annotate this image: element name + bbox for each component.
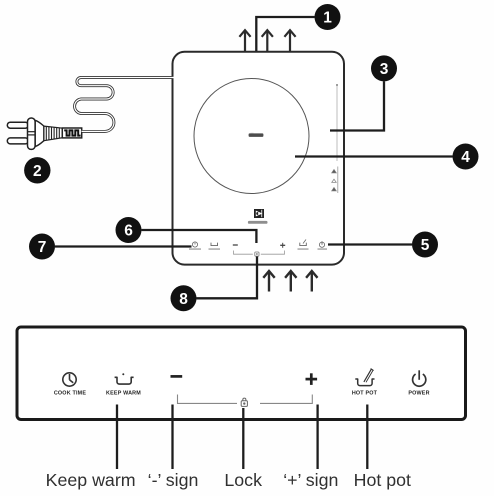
- enlarged control panel: [17, 327, 466, 420]
- mini lock bracket: [234, 251, 285, 255]
- label pointer line: plus: [316, 405, 318, 470]
- leader line 7: [55, 245, 192, 247]
- panel lock icon: [241, 398, 247, 406]
- panel plus key: [306, 378, 318, 381]
- label pointer line: lock: [242, 408, 244, 469]
- mini control panel: plus key: [280, 244, 285, 246]
- callout 5: [412, 232, 438, 258]
- leader line 6: [142, 230, 257, 243]
- leader line 4: [295, 155, 453, 157]
- panel lock bracket: [178, 395, 313, 404]
- mini control panel: keep-warm icon: [211, 243, 218, 246]
- svg-text:KEEP WARM: KEEP WARM: [106, 391, 141, 397]
- svg-text:3: 3: [380, 61, 389, 78]
- callout 4: [453, 144, 479, 170]
- callout 6: [116, 217, 142, 243]
- svg-text:POWER: POWER: [408, 391, 429, 397]
- mini control panel: hot-pot icon: [300, 243, 307, 246]
- panel hot-pot icon: [355, 369, 374, 386]
- label pointer line: hot pot: [366, 405, 368, 470]
- svg-text:HOT POT: HOT POT: [352, 391, 378, 397]
- svg-text:1: 1: [323, 10, 332, 27]
- svg-text:4: 4: [461, 149, 470, 166]
- bottom airflow arrows: [263, 271, 317, 292]
- power level scale line: [336, 84, 338, 161]
- electrolux wordmark: [248, 221, 268, 224]
- power cord meander: [75, 78, 174, 132]
- svg-text:‘+’ sign: ‘+’ sign: [283, 470, 338, 490]
- label pointer line: keep warm: [116, 405, 118, 470]
- svg-text:8: 8: [179, 291, 188, 308]
- leader line 8: [196, 257, 257, 299]
- power plug: face plate: [28, 118, 36, 149]
- svg-text:‘-’ sign: ‘-’ sign: [148, 470, 199, 490]
- power plug: top prong: [7, 122, 28, 128]
- svg-text:Hot pot: Hot pot: [354, 470, 411, 490]
- power plug: cone body: [35, 120, 44, 146]
- top airflow arrows: [239, 30, 295, 51]
- panel power icon: [413, 370, 426, 386]
- panel minus key: [171, 375, 183, 378]
- mini control panel: minus key: [233, 244, 238, 246]
- callout 1: [315, 4, 341, 30]
- mini lock icon: [255, 252, 259, 256]
- power plug: bottom prong: [7, 138, 28, 144]
- cooking zone circle: [194, 79, 309, 194]
- mini control panel: power icon: [319, 241, 324, 247]
- svg-text:2: 2: [33, 163, 42, 180]
- panel keep-warm icon: [115, 377, 134, 384]
- cooktop body: [173, 52, 345, 265]
- power plug: ribbed neck: [44, 126, 62, 141]
- callout 8: [171, 285, 197, 311]
- electrolux logo: [254, 209, 264, 218]
- panel cook-time icon: [63, 373, 76, 386]
- svg-text:5: 5: [421, 237, 430, 254]
- heat level indicator triangles: [332, 167, 338, 194]
- leader line 3: [330, 81, 384, 130]
- leader line 5: [328, 243, 412, 245]
- leader line 1: [256, 17, 314, 51]
- svg-text:COOK TIME: COOK TIME: [54, 391, 87, 397]
- power plug: cord grip with meander pattern: [62, 128, 81, 138]
- callout 2: [24, 157, 50, 183]
- induction label: [249, 133, 264, 137]
- callout 3: [371, 55, 397, 81]
- svg-text:Lock: Lock: [224, 470, 262, 490]
- mini control panel: cook-time icon: [192, 242, 197, 247]
- svg-text:6: 6: [124, 223, 133, 240]
- label pointer line: minus: [171, 405, 173, 470]
- svg-text:Keep warm: Keep warm: [46, 470, 136, 490]
- callout 7: [29, 234, 55, 260]
- svg-text:7: 7: [38, 239, 47, 256]
